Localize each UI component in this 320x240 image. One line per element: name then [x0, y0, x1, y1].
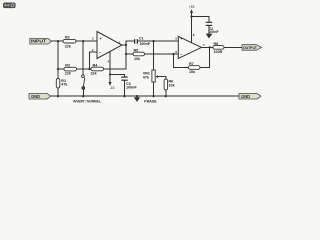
node input: [57, 40, 59, 42]
wire input row: [51, 40, 98, 42]
wire R8 to output tag: [224, 46, 242, 48]
svg-text:R3: R3: [65, 63, 70, 67]
node -in U2: [172, 53, 174, 55]
wire R3 row: [58, 68, 91, 70]
ground rail: [50, 95, 239, 97]
logo top-left: [3, 3, 16, 9]
wire VR1 wiper to R6: [157, 77, 166, 79]
svg-text:GND: GND: [31, 94, 40, 99]
svg-text:INPUT: INPUT: [31, 39, 47, 44]
node -15: [109, 73, 111, 75]
capacitor C2: [206, 22, 220, 34]
resistor R6: [164, 79, 176, 90]
resistor R8: [213, 42, 224, 54]
svg-text:100nF: 100nF: [208, 30, 219, 34]
wire R6 to rail: [165, 90, 167, 96]
svg-text:47k: 47k: [143, 76, 150, 80]
op-amp U1: [92, 32, 122, 64]
svg-text:100nF: 100nF: [139, 42, 150, 46]
svg-text:+15: +15: [189, 5, 195, 9]
wire R5 to inverting input U2: [145, 53, 179, 55]
op-amp U2: [175, 33, 205, 59]
svg-text:10k: 10k: [189, 70, 196, 74]
svg-text:PHASE: PHASE: [144, 99, 157, 103]
node VR1 tap: [152, 40, 154, 42]
wire VR1 vertical: [153, 41, 155, 70]
resistor R1: [56, 79, 68, 89]
svg-text:OUTPUT: OUTPUT: [243, 45, 257, 50]
resistor R2: [63, 36, 76, 49]
ground symbol under C2: [206, 34, 213, 39]
svg-text:R5: R5: [134, 48, 139, 52]
wire R1 to rail: [57, 88, 59, 96]
rail node switch: [82, 95, 84, 97]
svg-text:INVERT / NORMAL: INVERT / NORMAL: [73, 99, 101, 103]
wire input vertical: [57, 41, 59, 78]
wire feedback vertical node B: [126, 41, 134, 69]
svg-text:10k: 10k: [134, 57, 141, 61]
svg-text:-15: -15: [110, 86, 115, 90]
wire R4 to feedback: [104, 68, 127, 70]
rail node VR1: [152, 95, 154, 97]
svg-text:C1: C1: [139, 37, 144, 41]
resistor R7: [189, 62, 201, 74]
ground symbol on rail: [134, 97, 140, 102]
tag GND right: [239, 93, 261, 99]
wire VR1 to rail: [153, 82, 155, 96]
tag OUTPUT: [242, 45, 262, 51]
wire C2 to ground symbol: [208, 26, 210, 34]
junction dots: [57, 15, 211, 97]
wire -15 supply pin op-amp U1: [109, 52, 111, 82]
node R3 tap: [57, 68, 59, 70]
tag GND left: [29, 93, 51, 99]
node U1 out: [125, 44, 127, 46]
wire inverting input op-amp U1: [90, 52, 98, 69]
wire feedback R7 loop: [174, 54, 189, 68]
wire C3 to rail: [124, 81, 126, 96]
wire switch to ground rail: [82, 89, 84, 96]
svg-text:100nF: 100nF: [126, 86, 137, 90]
potentiometer VR1: [143, 70, 158, 82]
svg-text:22k: 22k: [65, 44, 72, 48]
svg-text:22k: 22k: [91, 72, 98, 76]
tag INPUT: [30, 38, 52, 44]
switch SW1 invert/normal: [82, 75, 85, 90]
wire R7 to output node: [200, 47, 210, 67]
svg-text:10k: 10k: [169, 83, 176, 87]
svg-text:R7: R7: [189, 62, 194, 66]
svg-text:47k: 47k: [61, 83, 68, 87]
node +15: [190, 15, 192, 17]
wire op-amp U1 output: [122, 44, 126, 46]
capacitor C3: [121, 77, 137, 90]
node R5 tap: [125, 53, 127, 55]
rail node R1: [57, 95, 59, 97]
node +in U1: [82, 40, 84, 42]
-15 supply arrow: [108, 82, 114, 90]
wire R5 left: [126, 53, 133, 55]
resistor R5: [133, 48, 145, 61]
node -in U1: [88, 68, 90, 70]
wire +15 to capacitor C2: [192, 17, 210, 23]
+15 supply arrow: [189, 5, 195, 13]
svg-text:GND: GND: [241, 94, 250, 99]
svg-text:R2: R2: [65, 36, 70, 40]
resistor R4: [91, 63, 104, 75]
svg-text:100R: 100R: [214, 50, 223, 54]
svg-text:22k: 22k: [65, 72, 72, 76]
wire -15 to capacitor C3: [110, 75, 125, 77]
resistor R3: [64, 63, 77, 75]
wire C1 to non-inverting input U2: [138, 40, 179, 42]
wire op-amp U2 output row: [202, 46, 214, 48]
rail node C3: [123, 95, 125, 97]
svg-text:R8: R8: [214, 42, 219, 46]
wire +15 supply pin op-amp U2: [191, 13, 193, 43]
wire switch line: [82, 41, 84, 74]
rail node R6: [165, 95, 167, 97]
capacitor C1: [134, 37, 151, 46]
node U2 out: [209, 46, 211, 48]
